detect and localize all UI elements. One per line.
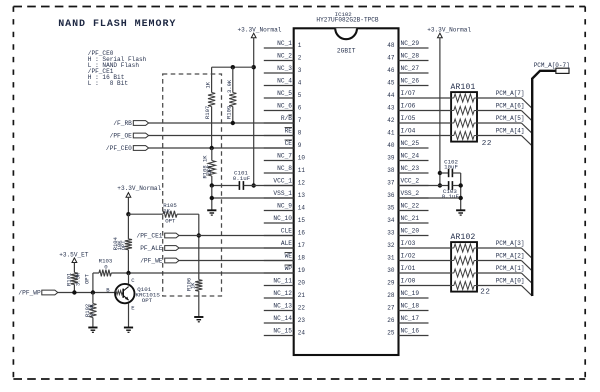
wire PCM_A[2] (477, 253, 532, 271)
svg-text:R/B: R/B (281, 115, 292, 122)
svg-text:AR102: AR102 (451, 233, 476, 242)
svg-text:NC_1: NC_1 (277, 40, 292, 47)
pin 37 VCC_2 (right) (387, 177, 428, 186)
wire PCM_A[5] (477, 115, 532, 133)
power +3.3V_Normal (right) (427, 27, 471, 38)
pin 42 I/O5 (right) (387, 115, 428, 124)
resistor R102 3.3K (84, 293, 97, 328)
connector /PF_CE1 (137, 233, 180, 240)
junction R107/R108/CE (210, 146, 214, 150)
svg-text:I/O2: I/O2 (401, 252, 416, 259)
wire /PF_CE0 to CE pin (149, 147, 294, 149)
pin 19 WP (left) (264, 265, 306, 274)
svg-text:9: 9 (298, 142, 302, 149)
svg-text:19: 19 (298, 267, 306, 274)
svg-text:R109: R109 (225, 106, 232, 119)
svg-text:20: 20 (298, 280, 306, 287)
junction R109/RB (231, 121, 235, 125)
wire PCM_A[3] (477, 240, 532, 258)
svg-text:23: 23 (298, 317, 306, 324)
svg-text:38: 38 (387, 167, 395, 174)
svg-text:33: 33 (387, 230, 395, 237)
resistor R109 3.9K (225, 67, 236, 123)
svg-text:NC_6: NC_6 (277, 102, 292, 109)
wire cap ground leg (460, 173, 462, 210)
svg-text:36: 36 (387, 192, 395, 199)
svg-text:6: 6 (298, 105, 302, 112)
svg-text:NC_28: NC_28 (401, 52, 420, 59)
pin 43 I/O6 (right) (387, 102, 428, 111)
svg-text:40: 40 (387, 142, 395, 149)
svg-text:OPT: OPT (165, 218, 176, 225)
svg-text:AR101: AR101 (451, 83, 476, 92)
svg-text:NC_16: NC_16 (401, 327, 420, 334)
IC IC102 HY27UF082G2B-TPCB (294, 28, 399, 355)
svg-text:39: 39 (387, 155, 395, 162)
power +3.5V_ET (59, 252, 89, 263)
junction R101 bottom (72, 290, 76, 294)
svg-text:13: 13 (298, 192, 306, 199)
svg-text:27: 27 (387, 305, 395, 312)
svg-text:46: 46 (387, 67, 395, 74)
wire I/O0 row (429, 285, 452, 287)
wire PCM_A[0] (477, 278, 532, 296)
wire PCM_A[6] (477, 103, 532, 121)
capacitor C101 0.1uF (233, 170, 251, 190)
pin 45 NC_26 (right) (387, 77, 428, 86)
svg-text:4: 4 (298, 80, 302, 87)
svg-text:5: 5 (298, 92, 302, 99)
svg-text:PCM_A[1]: PCM_A[1] (496, 265, 525, 272)
junction R102/base (91, 290, 95, 294)
wire collector to WP net (128, 273, 130, 284)
svg-text:2: 2 (298, 55, 302, 62)
svg-text:41: 41 (387, 130, 395, 137)
pin 23 NC_14 (left) (264, 315, 306, 324)
wire pull-up top (212, 66, 254, 68)
svg-text:16: 16 (298, 230, 306, 237)
ground (below R102) (88, 327, 97, 329)
svg-text:+3.5V_ET: +3.5V_ET (59, 252, 89, 259)
junction R103/R104/collector (126, 271, 130, 275)
svg-text:10: 10 (298, 155, 306, 162)
svg-text:VCC_1: VCC_1 (273, 177, 292, 184)
connector /PF_WE (140, 258, 179, 265)
svg-text:CLE: CLE (281, 227, 292, 234)
svg-text:NC_12: NC_12 (273, 290, 292, 297)
svg-text:12: 12 (298, 180, 306, 187)
wire WP net to pin (111, 272, 294, 274)
capacitor C103 0.1uF (440, 181, 461, 200)
svg-text:I/O6: I/O6 (401, 102, 416, 109)
svg-text:1K: 1K (163, 207, 170, 214)
ground (below Q101 emitter) (124, 327, 133, 329)
pin 38 NC_23 (right) (387, 165, 428, 174)
wire PCM_A[1] (477, 265, 532, 283)
pin 40 NC_25 (right) (387, 140, 428, 149)
svg-text:NAND FLASH MEMORY: NAND FLASH MEMORY (58, 19, 176, 30)
svg-text:PCM_A[0-7]: PCM_A[0-7] (534, 62, 570, 69)
svg-text:35: 35 (387, 205, 395, 212)
pin 32 I/O3 (right) (387, 240, 428, 249)
wire /PF_WP to Q101 base (58, 292, 116, 294)
wire PF_ALE to ALE pin (179, 247, 294, 249)
wire VCC_2 net (399, 185, 440, 187)
transistor Q101 KRC101S OPT (106, 277, 160, 311)
resistor R104 10K OPT (112, 214, 132, 273)
resistor network AR102 22 (451, 233, 491, 297)
svg-text:WP: WP (285, 265, 293, 272)
pin 46 NC_27 (right) (387, 65, 428, 74)
svg-text:3.3K: 3.3K (88, 303, 95, 317)
svg-text:NC_2: NC_2 (277, 52, 292, 59)
wire PCM_A[7] (477, 90, 532, 108)
svg-text:HY27UF082G2B-TPCB: HY27UF082G2B-TPCB (316, 17, 379, 24)
svg-text:NC_22: NC_22 (401, 202, 420, 209)
svg-text:1K: 1K (205, 81, 212, 88)
svg-text:11: 11 (298, 167, 306, 174)
pin 28 NC_19 (right) (387, 290, 428, 299)
wire I/O3 row (429, 247, 452, 249)
pin 35 NC_22 (right) (387, 202, 428, 211)
connector /PF_CE0 (106, 145, 149, 152)
svg-text:OPT: OPT (84, 273, 91, 284)
pin 13 VSS_1 (left) (264, 190, 306, 199)
svg-text:L : 8 Bit: L : 8 Bit (88, 80, 129, 87)
wire VSS_1 to ground (212, 197, 294, 199)
pin 2 NC_2 (left) (264, 52, 302, 61)
svg-text:8: 8 (298, 130, 302, 137)
svg-text:22: 22 (298, 305, 306, 312)
svg-text:NC_8: NC_8 (277, 165, 292, 172)
svg-text:NC_9: NC_9 (277, 202, 292, 209)
svg-text:28: 28 (387, 292, 395, 299)
svg-text:VCC_2: VCC_2 (401, 177, 420, 184)
svg-text:NC_23: NC_23 (401, 165, 420, 172)
svg-text:+3.3V_Normal: +3.3V_Normal (427, 27, 471, 34)
svg-text:PCM_A[0]: PCM_A[0] (496, 278, 525, 285)
pin 47 NC_28 (right) (387, 52, 428, 61)
pin 16 CLE (left) (264, 227, 306, 236)
wire I/O7 row (429, 97, 452, 99)
capacitor C102 10uF (440, 158, 461, 177)
svg-text:1: 1 (298, 42, 302, 49)
svg-text:31: 31 (387, 255, 395, 262)
pin 21 NC_12 (left) (264, 290, 306, 299)
ground (below R106) (194, 316, 203, 318)
junction rail/pullup top (252, 65, 256, 69)
svg-text:/PF_WE: /PF_WE (140, 258, 163, 265)
svg-text:PCM_A[6]: PCM_A[6] (496, 103, 525, 110)
wire /F_RB to R/B pin (149, 122, 294, 124)
pin 30 I/O1 (right) (387, 265, 428, 274)
svg-text:3: 3 (298, 67, 302, 74)
svg-text:PCM_A[2]: PCM_A[2] (496, 253, 525, 260)
ground (below VSS_1) (207, 209, 216, 211)
svg-text:NC_14: NC_14 (273, 315, 292, 322)
svg-text:NC_15: NC_15 (273, 327, 292, 334)
svg-text:2GBIT: 2GBIT (337, 48, 356, 55)
svg-text:30: 30 (387, 267, 395, 274)
svg-text:47: 47 (387, 55, 395, 62)
svg-text:PCM_A[3]: PCM_A[3] (496, 240, 525, 247)
junction rail/VCC_2/C103 (438, 183, 442, 187)
pin 34 NC_21 (right) (387, 215, 428, 224)
svg-text:NC_10: NC_10 (273, 215, 292, 222)
svg-text:I/O7: I/O7 (401, 90, 416, 97)
svg-text:NC_18: NC_18 (401, 302, 420, 309)
junction rail/C102 (438, 171, 442, 175)
OPT region dashed box (163, 74, 222, 296)
svg-text:R101: R101 (65, 272, 72, 286)
svg-text:RE: RE (285, 127, 293, 134)
wire /PF_WE to WE pin (179, 260, 294, 262)
pin 15 NC_10 (left) (264, 215, 306, 224)
pin 48 NC_29 (right) (387, 40, 428, 49)
svg-text:I/O0: I/O0 (401, 277, 416, 284)
svg-text:21: 21 (298, 292, 306, 299)
svg-text:+3.3V_Normal: +3.3V_Normal (238, 27, 282, 34)
resistor R106 1K (185, 278, 202, 317)
svg-text:NC_4: NC_4 (277, 77, 292, 84)
svg-text:15: 15 (298, 217, 306, 224)
power +3.3V_Normal (top) (238, 27, 282, 38)
junction rail/VCC_1 (252, 183, 256, 187)
svg-text:/PF_OE: /PF_OE (110, 133, 133, 140)
wire VCC_1 net (212, 185, 240, 187)
svg-text:0.1uF: 0.1uF (442, 193, 460, 200)
svg-text:22: 22 (480, 289, 490, 297)
wire emitter to ground (128, 303, 130, 327)
svg-text:I/O3: I/O3 (401, 240, 416, 247)
svg-text:32: 32 (387, 242, 395, 249)
svg-text:34: 34 (387, 217, 395, 224)
svg-text:NC_29: NC_29 (401, 40, 420, 47)
svg-text:NC_7: NC_7 (277, 152, 292, 159)
resistor R101 3.3K OPT (65, 263, 90, 293)
svg-text:7: 7 (298, 117, 302, 124)
svg-text:I/O4: I/O4 (401, 127, 416, 134)
connector /PF_OE (110, 133, 149, 140)
pin 29 I/O0 (right) (387, 277, 428, 286)
wire +3.3V rail (right) (439, 38, 441, 186)
svg-text:0: 0 (104, 263, 108, 270)
svg-text:CE: CE (285, 140, 293, 147)
resistor R105 1K OPT (128, 202, 198, 224)
pin 27 NC_18 (right) (387, 302, 428, 311)
pin 10 NC_7 (left) (264, 152, 306, 161)
pin 8 RE (left) (264, 127, 302, 136)
wire /PF_CE1 to CLE pin (179, 235, 294, 237)
svg-text:0.1uF: 0.1uF (233, 175, 251, 182)
pin 12 VCC_1 (left) (264, 177, 306, 186)
wire I/O6 row (429, 110, 452, 112)
svg-text:29: 29 (387, 280, 395, 287)
wire +3.3V rail (left) (253, 38, 255, 186)
wire I/O5 row (429, 122, 452, 124)
junction VSS_1 (210, 196, 214, 200)
pin 22 NC_13 (left) (264, 302, 306, 311)
junction C103 right (459, 183, 463, 187)
svg-text:VSS_1: VSS_1 (273, 190, 292, 197)
pin 4 NC_4 (left) (264, 77, 302, 86)
bus PCM_A[0-7] (532, 62, 570, 296)
pin 6 NC_6 (left) (264, 102, 302, 111)
svg-text:ALE: ALE (281, 240, 292, 247)
svg-text:3.9K: 3.9K (226, 79, 233, 93)
pin 17 ALE (left) (264, 240, 306, 249)
svg-text:17: 17 (298, 242, 306, 249)
svg-text:45: 45 (387, 80, 395, 87)
pin 24 NC_15 (left) (264, 327, 306, 336)
svg-text:/PF_CE1: /PF_CE1 (137, 233, 163, 240)
svg-text:I/O1: I/O1 (401, 265, 416, 272)
svg-text:/PF_CE0: /PF_CE0 (106, 145, 132, 152)
svg-text:I/O5: I/O5 (401, 115, 416, 122)
pin 9 CE (left) (264, 140, 302, 149)
svg-text:NC_11: NC_11 (273, 277, 292, 284)
svg-text:1K: 1K (189, 282, 196, 289)
resistor R107 1K (204, 67, 215, 148)
ground (below C102/C103) (456, 209, 465, 211)
svg-text:/F_RB: /F_RB (113, 120, 132, 127)
pin 5 NC_5 (left) (264, 90, 302, 99)
svg-text:14: 14 (298, 205, 306, 212)
svg-text:+3.3V_Normal: +3.3V_Normal (117, 185, 161, 192)
pin 41 I/O4 (right) (387, 127, 428, 136)
svg-text:OPT: OPT (120, 240, 127, 251)
pin 20 NC_11 (left) (264, 277, 306, 286)
resistor R103 0 (93, 258, 113, 293)
wire VSS_2 to ground (399, 197, 461, 199)
svg-text:NC_19: NC_19 (401, 290, 420, 297)
pin 18 WE (left) (264, 252, 306, 261)
svg-text:PF_ALE: PF_ALE (140, 245, 163, 252)
junction R109 top (231, 65, 235, 69)
pin 1 NC_1 (left) (264, 40, 302, 49)
svg-text:OPT: OPT (142, 297, 153, 304)
wire I/O2 row (429, 260, 452, 262)
connector /F_RB (113, 120, 148, 127)
svg-text:3.3K: 3.3K (75, 272, 82, 286)
wire /PF_OE to RE pin (149, 135, 294, 137)
svg-text:NC_13: NC_13 (273, 302, 292, 309)
pin 3 NC_3 (left) (264, 65, 302, 74)
pin 14 NC_9 (left) (264, 202, 306, 211)
svg-text:43: 43 (387, 105, 395, 112)
svg-text:NC_5: NC_5 (277, 90, 292, 97)
svg-text:OPT: OPT (206, 164, 213, 175)
svg-text:PCM_A[5]: PCM_A[5] (496, 115, 525, 122)
svg-text:NC_25: NC_25 (401, 140, 420, 147)
pin 7 R/B (left) (264, 115, 302, 124)
svg-text:NC_26: NC_26 (401, 77, 420, 84)
connector PF_ALE (140, 245, 179, 252)
svg-text:26: 26 (387, 317, 395, 324)
svg-text:48: 48 (387, 42, 395, 49)
pin 25 NC_16 (right) (387, 327, 428, 336)
svg-text:R107: R107 (204, 106, 211, 119)
svg-text:42: 42 (387, 117, 395, 124)
svg-text:NC_27: NC_27 (401, 65, 420, 72)
wire R105 to /PF_CE1 node and R106 (198, 214, 200, 280)
svg-text:22: 22 (482, 140, 492, 148)
junction R104/R105 (126, 212, 130, 216)
wire +3.3V to R104/R105 (127, 197, 129, 214)
svg-text:44: 44 (387, 92, 395, 99)
svg-text:25: 25 (387, 330, 395, 337)
pin 44 I/O7 (right) (387, 90, 428, 99)
svg-text:NC_17: NC_17 (401, 315, 420, 322)
pin 33 NC_20 (right) (387, 227, 428, 236)
svg-text:NC_3: NC_3 (277, 65, 292, 72)
wire I/O1 row (429, 272, 452, 274)
pin 39 NC_24 (right) (387, 152, 428, 161)
power +3.3V_Normal (middle) (117, 185, 161, 197)
svg-text:24: 24 (298, 330, 306, 337)
svg-text:18: 18 (298, 255, 306, 262)
pin 26 NC_17 (right) (387, 315, 428, 324)
junction /PF_CE1 (197, 233, 201, 237)
svg-text:NC_24: NC_24 (401, 152, 420, 159)
pin 36 VSS_2 (right) (387, 190, 428, 199)
resistor R108 1K OPT (201, 148, 215, 186)
junction R108/C101 (210, 183, 214, 187)
wire I/O4 row (429, 135, 452, 137)
svg-text:NC_21: NC_21 (401, 215, 420, 222)
svg-text:WE: WE (285, 252, 293, 259)
svg-text:PCM_A[4]: PCM_A[4] (496, 128, 525, 135)
wire PCM_A[4] (477, 128, 532, 146)
junction VSS_2/ground (459, 196, 463, 200)
svg-text:PCM_A[7]: PCM_A[7] (496, 90, 525, 97)
svg-text:/PF_WP: /PF_WP (18, 290, 41, 297)
svg-text:10uF: 10uF (444, 164, 458, 171)
svg-text:VSS_2: VSS_2 (401, 190, 420, 197)
connector /PF_WP (18, 290, 57, 297)
resistor network AR101 22 (451, 83, 493, 148)
pin 11 NC_8 (left) (264, 165, 306, 174)
svg-text:37: 37 (387, 180, 395, 187)
pin 31 I/O2 (right) (387, 252, 428, 261)
svg-text:NC_20: NC_20 (401, 227, 420, 234)
